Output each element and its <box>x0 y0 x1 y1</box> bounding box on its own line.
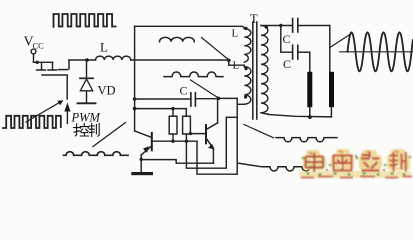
transformer T primary L2 <box>244 67 251 105</box>
wire Vcc to MOSFET <box>33 54 35 62</box>
annotation line control to oscillator <box>93 123 126 147</box>
transformer core <box>253 22 257 119</box>
wire C1 to lamp 2 <box>329 26 331 73</box>
phase dot secondary <box>265 25 268 28</box>
PWM waveform top <box>54 14 116 27</box>
wire center tap to winding L2 <box>229 60 245 67</box>
wire lamp return exit <box>237 163 262 167</box>
Vcc label <box>24 35 45 51</box>
node resistor wire left <box>133 107 137 111</box>
wire collector node to primary bottom rail <box>218 97 237 99</box>
node R1 top <box>171 107 174 110</box>
transformer secondary <box>261 26 268 114</box>
wire inductor to center tap <box>131 59 229 61</box>
resistor R1 <box>169 109 177 142</box>
wire branch to C2 <box>281 26 293 53</box>
wire primary bottom drop <box>236 98 238 174</box>
annotation arrow square wave to gate <box>26 100 63 122</box>
wire drain to diode node <box>69 59 96 61</box>
feedback winding sketch lower <box>164 72 223 77</box>
lamp leads bottom <box>309 107 311 117</box>
PWM waveform bottom <box>3 116 61 128</box>
phase dot L1 <box>244 27 247 30</box>
capacitor C1 ballast <box>293 19 330 33</box>
annotation line to sine <box>330 34 352 48</box>
svg-text:PWM: PWM <box>71 111 101 125</box>
label kongzhi (control) <box>74 123 89 136</box>
squiggle below lamp <box>276 138 337 142</box>
svg-text:C: C <box>180 84 188 98</box>
diode VD <box>78 60 96 103</box>
wire secondary top <box>261 25 292 27</box>
wire lamp return <box>268 115 331 117</box>
transistor VT2 <box>190 123 217 163</box>
svg-text:L: L <box>233 60 240 72</box>
wire drop branch <box>226 116 237 118</box>
phase dot lower <box>244 95 247 98</box>
wire VT2 collector <box>217 98 219 122</box>
lamp electrode 1 <box>307 72 312 107</box>
PWM control arrow to gate <box>64 103 70 124</box>
node lamp return <box>308 115 312 119</box>
node at MOSFET source <box>36 61 39 64</box>
wire C2 to lamp 1 <box>309 52 311 72</box>
squiggle bottom left <box>64 152 128 156</box>
lamp electrode 2 <box>329 72 334 107</box>
node emitter VT1 <box>140 158 143 161</box>
ground <box>131 160 153 176</box>
transistor V1 P-MOSFET <box>34 60 70 99</box>
Vcc terminal <box>31 49 36 54</box>
svg-text:C: C <box>283 57 291 71</box>
node diode junction <box>85 58 89 62</box>
svg-text:VD: VD <box>98 84 116 98</box>
wire resistor feed <box>135 109 187 117</box>
annotation line winding to center tap <box>202 38 229 60</box>
svg-text:L: L <box>232 28 239 40</box>
node R2 bottom <box>185 140 188 143</box>
wire L2 bottom to drop <box>237 103 244 105</box>
node base VT2 <box>189 132 192 135</box>
transistor VT1 <box>135 131 152 160</box>
phase dot L2 <box>244 67 247 70</box>
node R1 bottom <box>171 140 174 143</box>
feedback winding sketch upper <box>160 37 195 41</box>
capacitor C resonant <box>135 93 219 106</box>
node right collector top <box>216 97 220 101</box>
node center tap <box>227 59 231 63</box>
wire base rail <box>152 140 197 142</box>
wire outer return <box>197 141 237 174</box>
capacitor C2 ballast <box>293 45 310 59</box>
node secondary top <box>279 24 282 27</box>
watermark <box>299 149 412 178</box>
wire emitter rail <box>141 160 213 164</box>
wire top rail <box>135 25 242 27</box>
transformer T primary L1 <box>242 26 251 62</box>
inductor L <box>96 56 131 60</box>
annotation line winding to collector node <box>191 80 218 97</box>
node cap wire left <box>133 97 137 101</box>
sine wave output <box>348 32 413 71</box>
squiggle wire lower right <box>262 167 314 171</box>
sine baseline <box>340 51 413 53</box>
wire base network return <box>186 117 226 168</box>
annotation line to lamp squiggle <box>244 125 274 138</box>
resistor R2 <box>183 116 191 141</box>
wire left collector rail <box>134 26 136 131</box>
svg-text:C: C <box>283 32 291 46</box>
svg-text:L: L <box>100 40 108 55</box>
